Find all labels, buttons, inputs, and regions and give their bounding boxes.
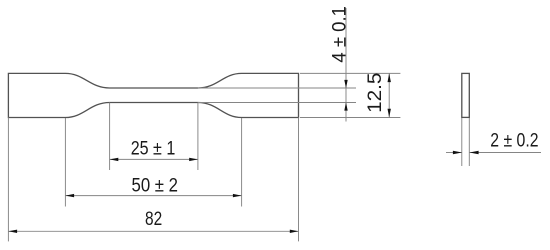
svg-text:50 ± 2: 50 ± 2 — [132, 175, 179, 196]
dimension 25±1: right arrow — [189, 158, 198, 161]
svg-text:4 ± 0.1: 4 ± 0.1 — [330, 6, 351, 63]
dimension 2±0.2: dimension line right segment — [469, 152, 541, 154]
dimension 25±1: left arrow — [110, 158, 119, 161]
dimension 50±2: right extension line — [241, 118, 243, 207]
dimension 25±1: right extension line — [197, 103, 199, 171]
dimension 2±0.2: right extension line — [468, 118, 470, 166]
dimension 25±1: left extension line — [109, 103, 111, 171]
dimension 82: dimension line — [8, 230, 298, 232]
extension line narrow top (y=88) — [198, 87, 356, 89]
dimension 12.5: dimension line — [388, 73, 390, 117]
dimension 2±0.2: dimension line left segment — [446, 152, 462, 154]
dimension 82: left arrow — [8, 230, 17, 233]
dimension 2±0.2: right arrow (pointing left) — [470, 151, 479, 154]
dimension 50±2: right arrow — [233, 194, 242, 197]
dimension 4±0.1: upper arrow (pointing down) — [344, 80, 347, 88]
side view thin rectangle — [462, 73, 470, 117]
dimension 2±0.2: left arrow (pointing right) — [453, 151, 462, 154]
dimension 50±2: dimension line — [65, 195, 241, 197]
specimen outline (dog-bone front view) — [8, 73, 298, 117]
svg-text:12.5: 12.5 — [365, 73, 386, 113]
svg-text:2 ± 0.2: 2 ± 0.2 — [490, 131, 538, 152]
dimension 82: right arrow — [290, 230, 299, 233]
dimension 25±1: dimension line — [110, 158, 198, 160]
svg-text:25 ± 1: 25 ± 1 — [131, 138, 176, 159]
svg-text:82: 82 — [145, 209, 162, 230]
extension line wide top (y=73.4) — [300, 72, 400, 74]
dimension 12.5: bottom arrow (pointing down) — [388, 109, 391, 118]
dimension 4±0.1: dimension line — [345, 8, 347, 122]
dimension 4±0.1: lower arrow (pointing up) — [344, 102, 347, 110]
extension line narrow bottom (y=102.5) — [198, 102, 356, 104]
dimension 82: left extension line — [7, 118, 9, 242]
dimension 50±2: left extension line — [64, 118, 66, 207]
dimension 2±0.2: left extension line — [461, 118, 463, 166]
dimension 12.5: top arrow (pointing up) — [388, 73, 391, 82]
dimension 50±2: left arrow — [65, 194, 74, 197]
extension line wide bottom (y=117.5) — [300, 117, 400, 119]
dimension 82: right extension line — [298, 118, 300, 242]
